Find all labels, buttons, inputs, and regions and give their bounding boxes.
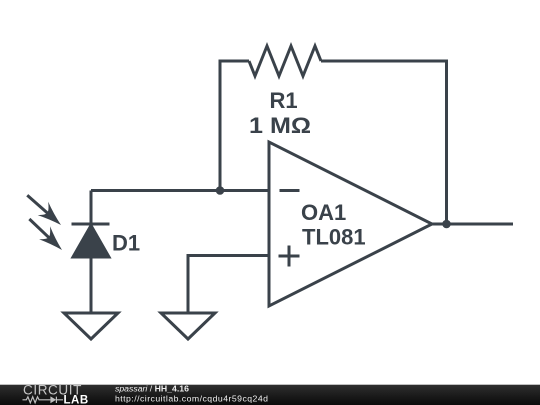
wire: op-amp output bbox=[432, 223, 513, 226]
op-amp minus sign (inverting input) bbox=[280, 189, 300, 192]
svg-text:D1: D1 bbox=[112, 231, 140, 256]
resistor R1 zigzag bbox=[249, 46, 321, 76]
op-amp OA1 triangle body bbox=[269, 142, 432, 306]
svg-text:LAB: LAB bbox=[64, 394, 89, 405]
svg-text:1 MΩ: 1 MΩ bbox=[249, 113, 311, 138]
light arrow 2 into photodiode bbox=[24, 212, 68, 255]
photodiode D1 anode triangle bbox=[73, 226, 109, 258]
svg-text:TL081: TL081 bbox=[302, 225, 366, 250]
wire: photodiode top lead bbox=[90, 191, 93, 225]
op-amp plus sign (non-inverting input) bbox=[279, 246, 300, 267]
CircuitLab logo resistor-diode glyph bbox=[23, 396, 64, 403]
ground symbol at non-inverting input bbox=[161, 313, 215, 339]
svg-text:http://circuitlab.com/cqdu4r59: http://circuitlab.com/cqdu4r59cq24d bbox=[115, 394, 268, 404]
wire: photodiode bottom lead bbox=[90, 257, 93, 313]
wire: inverting node up to resistor left lead bbox=[220, 61, 249, 192]
photodiode D1 cathode bar bbox=[72, 223, 110, 226]
wire: resistor right lead to output node bbox=[321, 61, 447, 224]
junction dot: output node bbox=[442, 220, 451, 229]
wire: inverting input horizontal (photodiode to op-amp) bbox=[91, 189, 269, 192]
svg-text:OA1: OA1 bbox=[301, 200, 346, 225]
ground symbol under D1 bbox=[64, 313, 118, 339]
junction dot: inverting node bbox=[216, 186, 225, 195]
light arrow 1 into photodiode bbox=[22, 188, 67, 231]
svg-text:spassari / HH_4.16: spassari / HH_4.16 bbox=[115, 383, 189, 393]
wire: non-inverting input to ground bbox=[188, 256, 269, 314]
svg-text:R1: R1 bbox=[269, 88, 297, 113]
